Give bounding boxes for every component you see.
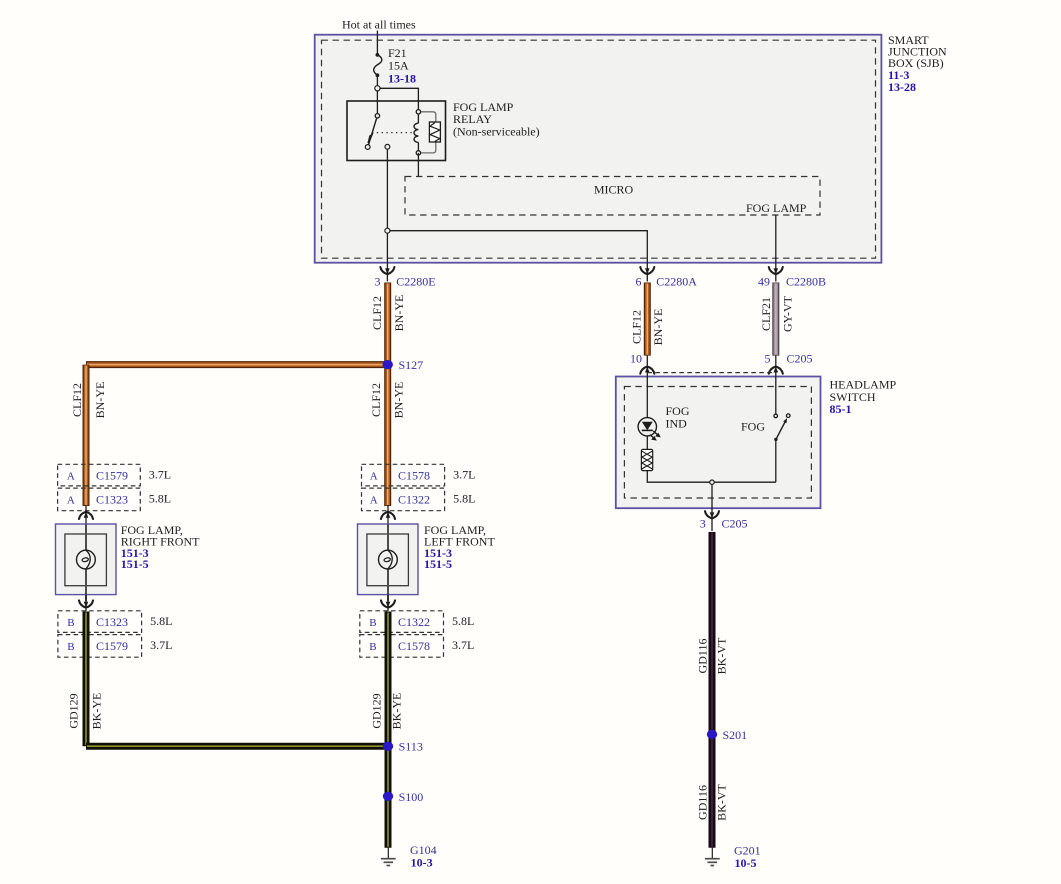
svg-text:5.8L: 5.8L: [453, 492, 475, 506]
micro module box: [405, 177, 820, 216]
fog switch: [774, 356, 790, 483]
node switch output junction: [710, 480, 714, 484]
headlamp switch box: [616, 377, 821, 509]
svg-text:GD116: GD116: [696, 639, 710, 674]
svg-text:C205: C205: [787, 351, 813, 365]
svg-text:B: B: [67, 641, 74, 653]
svg-text:B: B: [369, 641, 376, 653]
svg-text:C1323: C1323: [96, 492, 128, 506]
fog lamp right front label: [121, 523, 200, 571]
svg-text:3.7L: 3.7L: [150, 638, 172, 652]
fog lamp right front: [56, 505, 117, 601]
svg-text:3.7L: 3.7L: [149, 468, 171, 482]
svg-text:49: 49: [758, 274, 770, 288]
svg-text:C1322: C1322: [398, 492, 430, 506]
svg-text:151-5: 151-5: [121, 557, 149, 571]
svg-text:A: A: [370, 470, 378, 482]
svg-text:FOG: FOG: [741, 420, 765, 434]
svg-text:GD129: GD129: [67, 693, 81, 728]
wire CLF12 BN-YE C2280A to switch: [644, 283, 651, 356]
connector C205 pin 5: [765, 351, 813, 373]
wire GD129 BK-YE right front: [86, 612, 388, 747]
arrow out of right front lamp: [79, 595, 93, 611]
wire label GD129 BK-YE (left front): [370, 693, 404, 730]
svg-text:C1578: C1578: [398, 468, 430, 482]
relay coil: [414, 110, 440, 155]
svg-text:13-18: 13-18: [388, 72, 416, 86]
wire relay output down: [386, 149, 388, 281]
svg-text:BK-VT: BK-VT: [715, 784, 729, 821]
wire hot feed: [376, 31, 378, 55]
LED label FOG IND: [666, 404, 690, 430]
svg-text:GD116: GD116: [696, 785, 710, 820]
svg-text:CLF12: CLF12: [630, 310, 644, 344]
connector C1579: [58, 635, 142, 658]
svg-text:13-28: 13-28: [888, 80, 916, 94]
wire GD129 BK-YE left front: [385, 612, 392, 848]
connector C205 pin 10: [630, 351, 654, 373]
svg-text:C1579: C1579: [96, 468, 128, 482]
svg-text:6: 6: [636, 274, 642, 288]
wire label CLF21 GY-VT: [759, 295, 795, 332]
svg-text:10-3: 10-3: [411, 855, 433, 869]
wire junction to C2280A: [390, 231, 647, 282]
connectors A C1579/C1323 (right front): [58, 464, 172, 510]
connector C2280A pin 6: [636, 267, 698, 288]
splice S201: [707, 728, 747, 742]
connectors B C1322/C1578 (left front): [360, 611, 475, 657]
svg-text:FOG LAMP: FOG LAMP: [746, 201, 807, 215]
wire branch to relay coil: [380, 88, 418, 112]
svg-text:IND: IND: [666, 416, 688, 430]
svg-text:CLF12: CLF12: [369, 383, 383, 417]
svg-text:B: B: [369, 617, 376, 629]
node relay output junction: [385, 228, 390, 233]
svg-text:C2280A: C2280A: [656, 274, 697, 288]
svg-text:Hot at all times: Hot at all times: [342, 18, 416, 32]
wire coil to micro: [417, 153, 419, 177]
svg-text:BN-YE: BN-YE: [651, 309, 665, 346]
svg-text:15A: 15A: [388, 59, 409, 73]
svg-text:MICRO: MICRO: [594, 183, 634, 197]
svg-text:C2280E: C2280E: [396, 274, 435, 288]
svg-text:S113: S113: [399, 740, 423, 754]
svg-text:3.7L: 3.7L: [452, 638, 474, 652]
svg-text:B: B: [67, 617, 74, 629]
connector C2280E pin 3: [375, 267, 436, 288]
relay box fog lamp relay: [347, 101, 446, 161]
svg-text:A: A: [67, 494, 75, 506]
connectors B C1323/C1579 (right front): [58, 611, 173, 657]
connector C1579: [58, 464, 141, 486]
node fuse branch junction: [375, 86, 380, 91]
connector C1322: [362, 488, 445, 511]
connectors A C1578/C1322 (left front): [362, 464, 476, 510]
switch label FOG: [741, 420, 765, 434]
svg-text:5: 5: [765, 351, 771, 365]
wire label GD116 BK-VT upper: [696, 637, 729, 674]
svg-text:C1322: C1322: [398, 615, 430, 629]
svg-text:A: A: [370, 494, 378, 506]
relay label: [453, 100, 540, 139]
arrow out of left front lamp: [381, 595, 395, 611]
wire label CLF12 BN-YE (C2280A): [630, 309, 666, 346]
svg-text:10: 10: [630, 351, 642, 365]
svg-text:A: A: [67, 470, 75, 482]
connector C1323: [58, 488, 141, 511]
wire pin10 to LED: [646, 356, 648, 418]
relay output contact: [385, 144, 390, 149]
svg-text:S201: S201: [723, 728, 748, 742]
svg-text:BK-YE: BK-YE: [390, 693, 404, 730]
svg-text:C1578: C1578: [398, 639, 430, 653]
connector C2280B pin 49: [758, 267, 826, 288]
headlamp switch label: [830, 378, 897, 417]
node Hot at all times: [342, 18, 416, 32]
connector C1323: [58, 611, 142, 633]
svg-text:CLF12: CLF12: [370, 296, 384, 330]
fuse F21: [374, 46, 416, 85]
connector C205 pin 3: [700, 511, 748, 530]
svg-text:CLF21: CLF21: [759, 297, 773, 331]
wire fuse to relay: [376, 75, 378, 115]
svg-text:C205: C205: [722, 517, 748, 531]
svg-text:C2280B: C2280B: [786, 274, 826, 288]
relay actuation dotted line: [372, 132, 414, 134]
wire CLF12 BN-YE from C2280E to S127 and A connectors: [86, 283, 388, 507]
wire GD116 BK-VT: [709, 532, 716, 848]
svg-text:BK-YE: BK-YE: [90, 693, 104, 730]
connector C1578: [360, 635, 444, 658]
splice S113: [383, 740, 423, 754]
svg-text:C1579: C1579: [96, 639, 128, 653]
wire label CLF12 BN-YE (left drop): [70, 382, 107, 419]
wire label GD129 BK-YE (left): [67, 693, 104, 730]
svg-text:(Non-serviceable): (Non-serviceable): [453, 124, 540, 138]
svg-text:GY-VT: GY-VT: [781, 295, 795, 332]
svg-text:5.8L: 5.8L: [149, 492, 171, 506]
connector C205 dashed link: [647, 372, 776, 374]
SJB label: [888, 33, 947, 94]
connector C1322: [360, 611, 444, 633]
connector C1578: [362, 464, 445, 486]
relay switch contact: [365, 114, 379, 150]
fog lamp left front label: [424, 523, 495, 571]
wire label GD116 BK-VT lower: [696, 784, 729, 821]
svg-text:3: 3: [700, 517, 706, 531]
wire resistor to bottom bus: [647, 471, 776, 483]
ground G201: [705, 844, 761, 871]
svg-text:BN-YE: BN-YE: [392, 382, 406, 419]
svg-text:C1323: C1323: [96, 615, 128, 629]
wire junction to C205 pin3: [711, 484, 713, 531]
svg-text:S100: S100: [399, 790, 424, 804]
svg-text:CLF12: CLF12: [70, 383, 84, 417]
wire label CLF12 BN-YE (left front drop): [369, 382, 406, 419]
LED fog indicator: [638, 418, 661, 441]
wire micro fog lamp output: [775, 215, 777, 282]
svg-text:10-5: 10-5: [735, 856, 757, 870]
wire CLF21 GY-VT C2280B to switch: [772, 283, 779, 356]
svg-text:BN-YE: BN-YE: [93, 382, 107, 419]
svg-text:BK-VT: BK-VT: [715, 637, 729, 674]
svg-text:S127: S127: [399, 358, 424, 372]
splice S100: [383, 790, 423, 804]
svg-text:151-5: 151-5: [424, 557, 452, 571]
svg-text:3: 3: [375, 274, 381, 288]
smart junction box SJB outline: [315, 35, 882, 263]
svg-text:5.8L: 5.8L: [150, 614, 172, 628]
wire LED to resistor: [646, 436, 648, 449]
ground G104: [381, 843, 437, 869]
svg-text:GD129: GD129: [370, 693, 384, 728]
svg-text:3.7L: 3.7L: [453, 468, 475, 482]
svg-text:BN-YE: BN-YE: [392, 295, 406, 332]
fog lamp left front: [358, 505, 419, 601]
wire label CLF12 BN-YE (C2280E drop): [370, 295, 406, 332]
svg-text:85-1: 85-1: [830, 402, 852, 416]
splice S127: [383, 358, 424, 372]
svg-text:5.8L: 5.8L: [452, 614, 474, 628]
resistor in switch: [641, 449, 652, 470]
